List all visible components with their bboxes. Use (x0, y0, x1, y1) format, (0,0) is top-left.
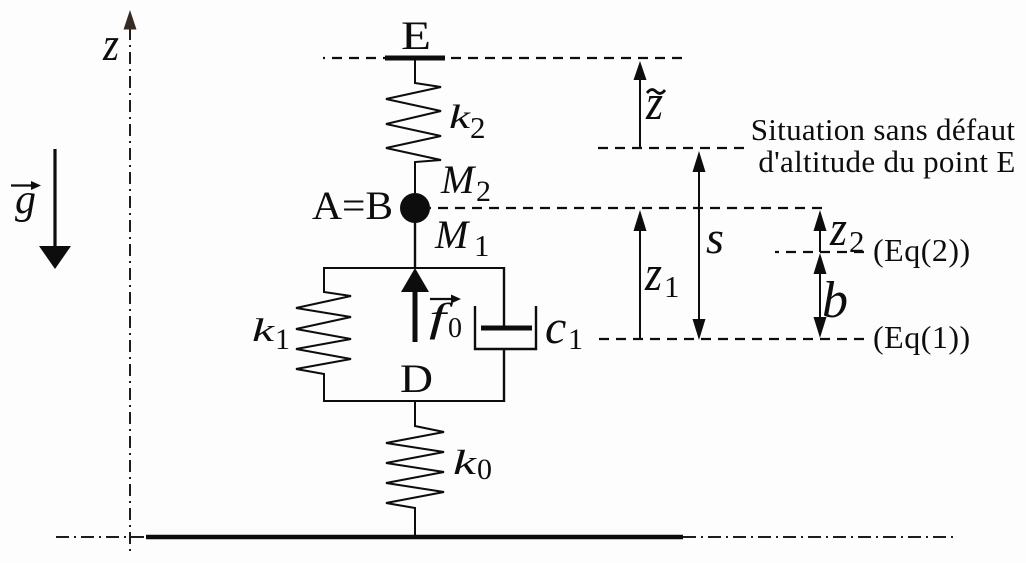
damper c1 rod (503, 267, 505, 326)
svg-text:M: M (434, 212, 471, 257)
dashed level line situation (595, 147, 744, 149)
dim arrow z~ (639, 79, 641, 148)
support bar at E (385, 56, 445, 61)
svg-text:b: b (822, 272, 848, 329)
svg-text:(Eq(2)): (Eq(2)) (873, 232, 971, 268)
damper c1 cylinder cup (475, 306, 536, 349)
dim arrow s (698, 166, 700, 325)
svg-text:d'altitude du point E: d'altitude du point E (758, 144, 1015, 179)
svg-text:2: 2 (470, 110, 486, 145)
dim arrow z2 (819, 226, 821, 252)
dashed level line at E (323, 57, 682, 59)
dim arrow z1 (639, 226, 641, 338)
parallel box top line (324, 267, 504, 269)
svg-text:s: s (706, 212, 724, 263)
label f0 with vector arrow (430, 298, 454, 300)
svg-text:D: D (400, 356, 433, 401)
svg-text:1: 1 (664, 269, 680, 304)
force arrow f0 (413, 291, 418, 342)
svg-text:0: 0 (477, 453, 492, 486)
rod ball to box (414, 222, 416, 268)
svg-text:k: k (453, 443, 478, 482)
svg-text:z: z (829, 200, 847, 256)
svg-text:z: z (644, 245, 662, 301)
svg-text:1: 1 (275, 323, 290, 356)
svg-text:z: z (645, 74, 663, 130)
gravity vector g (53, 149, 56, 247)
svg-text:A=B: A=B (312, 183, 393, 228)
dashed level line Eq1 (595, 338, 864, 340)
svg-text:E: E (401, 13, 431, 58)
z axis dash-dot line (129, 28, 131, 556)
spring k1 (296, 267, 351, 402)
dashed level line Eq2 (775, 251, 864, 253)
svg-text:(Eq(1)): (Eq(1)) (873, 319, 971, 355)
svg-text:2: 2 (849, 224, 865, 259)
svg-text:k: k (449, 99, 471, 136)
svg-text:1: 1 (568, 323, 583, 356)
svg-text:0: 0 (448, 313, 462, 344)
z axis arrowhead (124, 10, 137, 30)
svg-text:M: M (440, 157, 477, 202)
svg-text:z: z (102, 18, 119, 71)
parallel box bottom line (324, 400, 504, 402)
svg-text:k: k (252, 313, 276, 349)
mass ball A=B (400, 193, 430, 223)
damper c1 piston plate (481, 326, 532, 331)
svg-text:1: 1 (474, 228, 490, 263)
spring k2 (386, 60, 441, 193)
ground line (146, 535, 683, 539)
dim arrow b (819, 268, 821, 323)
svg-text:c: c (545, 301, 566, 354)
svg-text:Situation sans défaut: Situation sans défaut (751, 112, 1016, 147)
dashed level line at A=B (430, 207, 822, 209)
label g with vector arrow (11, 184, 35, 186)
svg-text:g: g (15, 177, 36, 223)
spring k0 (386, 401, 444, 537)
ground dash-dot left (56, 536, 146, 538)
damper lower rod (503, 349, 505, 402)
ground dash-dot right (683, 536, 955, 538)
svg-text:2: 2 (476, 175, 491, 208)
